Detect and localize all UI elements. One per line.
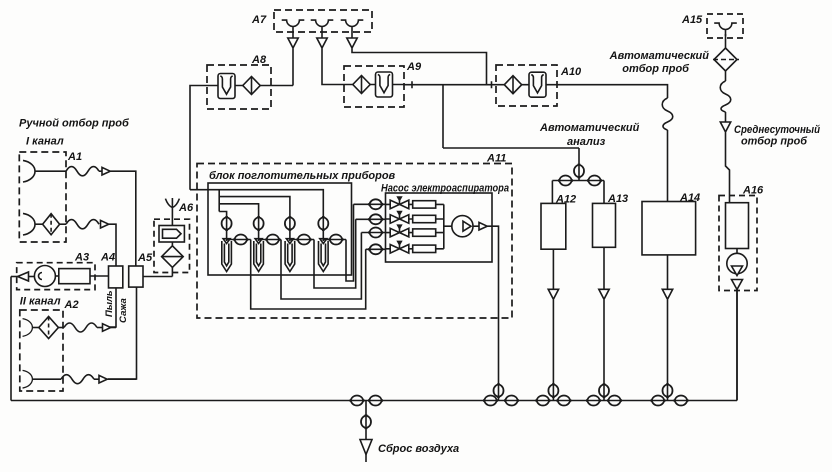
svg-text:Насос электроаспиратора: Насос электроаспиратора <box>381 183 509 195</box>
svg-text:A5: A5 <box>137 252 153 264</box>
svg-text:анализ: анализ <box>567 136 606 148</box>
svg-text:A6: A6 <box>178 202 194 214</box>
svg-text:A11: A11 <box>486 153 506 165</box>
svg-text:Пыль: Пыль <box>104 290 115 317</box>
svg-text:Среднесуточный: Среднесуточный <box>734 124 820 136</box>
svg-text:Сброс воздуха: Сброс воздуха <box>378 443 459 455</box>
svg-text:A7: A7 <box>251 14 267 26</box>
svg-text:A12: A12 <box>555 194 576 206</box>
svg-text:A4: A4 <box>100 252 115 264</box>
svg-text:A2: A2 <box>64 299 79 311</box>
svg-text:A15: A15 <box>681 14 703 26</box>
svg-text:A1: A1 <box>67 151 82 163</box>
svg-text:блок поглотительных приборов: блок поглотительных приборов <box>209 170 396 182</box>
svg-text:A14: A14 <box>679 192 700 204</box>
svg-text:отбор проб: отбор проб <box>741 136 808 148</box>
svg-text:A10: A10 <box>560 66 582 78</box>
svg-text:A16: A16 <box>742 185 764 197</box>
svg-text:Сажа: Сажа <box>118 298 129 323</box>
svg-text:A13: A13 <box>607 193 628 205</box>
svg-text:A3: A3 <box>74 252 89 264</box>
svg-text:Автоматический: Автоматический <box>609 50 710 62</box>
svg-text:I канал: I канал <box>26 136 64 148</box>
svg-text:отбор проб: отбор проб <box>622 63 690 75</box>
svg-text:Ручной отбор проб: Ручной отбор проб <box>19 118 130 130</box>
svg-text:Автоматический: Автоматический <box>539 122 640 134</box>
svg-text:A8: A8 <box>251 54 267 66</box>
svg-text:II канал: II канал <box>20 296 61 308</box>
svg-text:A9: A9 <box>406 61 422 73</box>
